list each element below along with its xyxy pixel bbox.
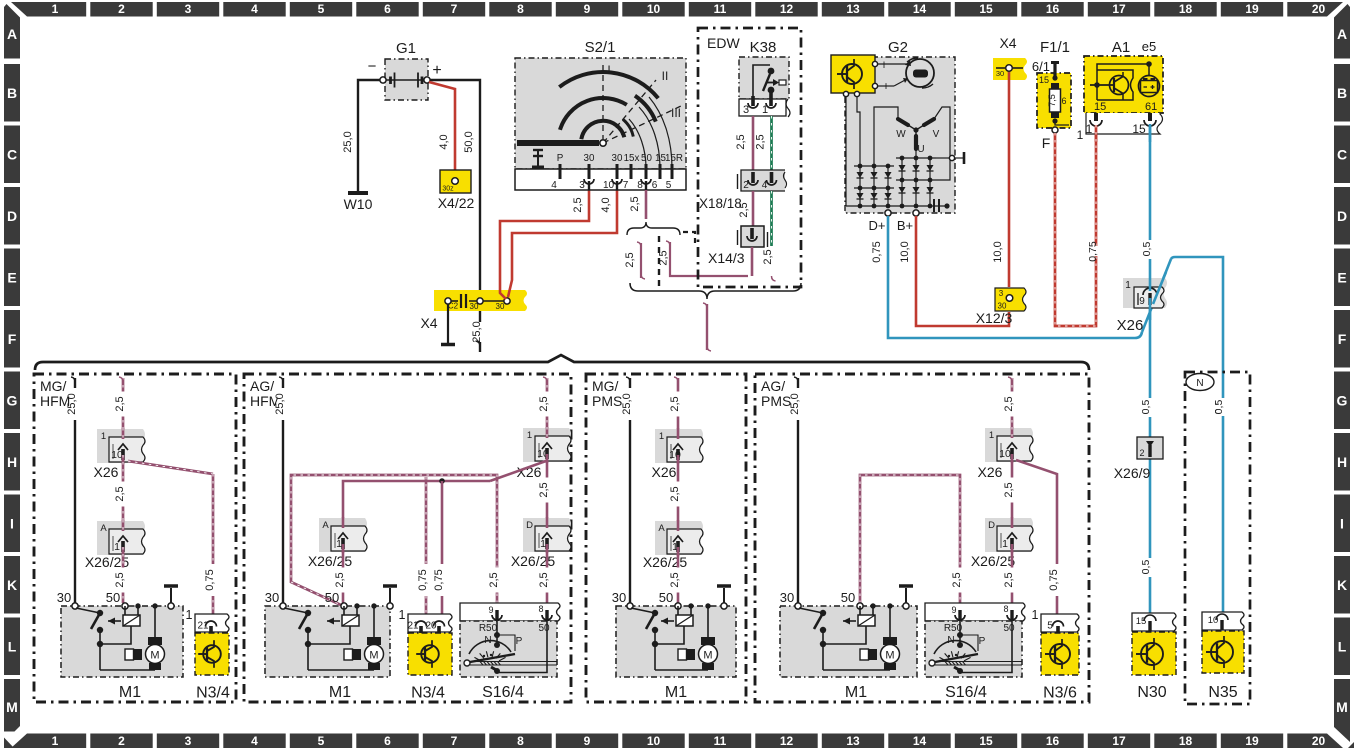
svg-text:8: 8 [517,734,524,748]
svg-text:0,75: 0,75 [204,569,216,590]
svg-text:14: 14 [913,734,927,748]
svg-text:1: 1 [114,541,120,553]
svg-text:1: 1 [52,734,59,748]
svg-text:25,0: 25,0 [789,393,801,414]
svg-text:N30: N30 [1137,684,1166,701]
svg-text:61: 61 [1145,101,1157,113]
svg-text:30: 30 [780,590,794,605]
svg-text:30: 30 [612,153,623,164]
svg-text:1: 1 [1125,280,1131,291]
svg-text:2,5: 2,5 [572,197,584,212]
svg-text:2,5: 2,5 [762,249,774,264]
svg-text:50: 50 [325,590,339,605]
svg-text:4: 4 [551,180,557,191]
svg-text:11: 11 [714,2,727,16]
svg-text:0,5: 0,5 [1140,400,1152,415]
svg-text:A: A [7,26,17,42]
svg-text:S16/4: S16/4 [482,684,524,701]
svg-text:7,5: 7,5 [1047,94,1057,107]
svg-text:N: N [1196,378,1203,389]
svg-text:17: 17 [1112,734,1126,748]
svg-text:E: E [7,270,16,286]
svg-text:4,0: 4,0 [438,134,450,149]
svg-text:15R: 15R [665,153,683,164]
svg-text:S16/4: S16/4 [945,684,987,701]
svg-text:2,5: 2,5 [1003,396,1015,411]
svg-text:M: M [703,650,712,662]
svg-text:D: D [7,208,17,224]
svg-text:D: D [1337,208,1347,224]
svg-text:N3/4: N3/4 [411,685,445,702]
svg-text:7: 7 [451,734,458,748]
svg-text:10: 10 [603,180,615,191]
svg-text:25,0: 25,0 [342,131,354,152]
svg-text:1: 1 [52,2,59,16]
svg-text:11: 11 [714,734,727,748]
svg-text:M: M [885,650,894,662]
svg-text:A: A [100,523,107,534]
svg-text:N35: N35 [1208,684,1237,701]
svg-text:6: 6 [384,2,391,16]
svg-text:X26/25: X26/25 [308,553,353,569]
svg-text:50: 50 [538,623,550,634]
svg-text:0,5: 0,5 [1213,400,1225,415]
svg-text:18: 18 [1179,2,1193,16]
svg-text:1: 1 [1002,538,1008,550]
svg-text:B: B [1337,85,1347,101]
svg-text:14: 14 [913,2,927,16]
svg-text:25,0: 25,0 [66,393,78,414]
svg-text:25,0: 25,0 [471,321,483,342]
svg-text:4: 4 [762,180,768,191]
svg-text:X4: X4 [999,35,1016,51]
svg-text:2,5: 2,5 [334,572,346,587]
svg-text:H: H [7,454,17,470]
svg-text:16: 16 [1046,734,1060,748]
svg-text:2: 2 [743,180,749,191]
svg-text:8: 8 [1003,604,1008,614]
svg-text:U: U [917,144,924,155]
svg-text:10: 10 [647,2,661,16]
svg-text:12: 12 [780,734,794,748]
svg-text:N3/6: N3/6 [1043,685,1077,702]
svg-text:e5: e5 [1142,39,1156,54]
svg-text:2,5: 2,5 [629,196,641,211]
svg-text:0,75: 0,75 [871,241,883,262]
svg-text:2,5: 2,5 [669,486,681,501]
svg-text:E: E [1337,270,1346,286]
svg-text:0,75: 0,75 [433,569,445,590]
svg-text:30: 30 [612,590,626,605]
svg-text:X18/18: X18/18 [699,196,742,211]
svg-text:50,0: 50,0 [463,131,475,152]
svg-text:2,5: 2,5 [1003,572,1015,587]
svg-text:50: 50 [841,590,855,605]
svg-text:B: B [7,85,17,101]
svg-text:1: 1 [527,430,532,441]
svg-text:15x: 15x [624,153,640,164]
svg-text:X14/3: X14/3 [708,250,745,266]
svg-text:M: M [6,699,18,715]
svg-text:H: H [1337,454,1347,470]
svg-text:7: 7 [451,2,458,16]
svg-text:M1: M1 [119,684,141,701]
svg-text:10,0: 10,0 [899,241,911,262]
svg-text:D: D [526,520,533,531]
svg-text:20: 20 [1312,734,1326,748]
svg-text:19: 19 [1245,2,1259,16]
svg-text:W: W [896,129,906,140]
svg-text:MG/: MG/ [40,378,67,394]
svg-text:X26: X26 [94,464,119,480]
svg-text:K38: K38 [750,39,777,56]
svg-text:AG/: AG/ [761,378,785,394]
svg-text:2,5: 2,5 [738,202,750,217]
svg-text:1: 1 [540,538,546,550]
svg-text:4: 4 [251,2,258,16]
svg-text:12: 12 [780,2,794,16]
svg-text:D: D [988,520,995,531]
svg-text:2,5: 2,5 [114,486,126,501]
svg-text:2,5: 2,5 [669,396,681,411]
svg-text:L: L [8,639,17,655]
svg-text:PMS: PMS [592,393,622,409]
svg-text:9: 9 [951,605,956,615]
svg-text:0,5: 0,5 [1141,242,1153,257]
svg-text:EDW: EDW [707,35,740,51]
svg-text:30: 30 [265,590,279,605]
svg-text:50: 50 [659,590,673,605]
svg-text:13: 13 [846,734,860,748]
svg-text:30: 30 [470,302,479,311]
svg-text:P: P [557,153,564,164]
svg-text:A: A [1337,26,1347,42]
svg-text:13: 13 [846,2,860,16]
svg-text:3: 3 [743,104,749,116]
svg-text:III: III [671,106,681,120]
svg-text:F: F [1338,331,1347,347]
svg-text:19: 19 [1245,734,1259,748]
svg-text:1: 1 [659,431,664,442]
svg-text:K: K [1337,577,1347,593]
svg-text:PMS: PMS [761,393,791,409]
svg-text:30: 30 [496,302,505,311]
svg-text:M1: M1 [329,684,351,701]
svg-text:M: M [369,650,378,662]
svg-text:2,5: 2,5 [735,134,747,149]
svg-text:5: 5 [666,180,672,191]
svg-text:C: C [7,147,17,163]
svg-text:W10: W10 [344,196,373,212]
svg-text:B+: B+ [897,218,913,233]
svg-text:2: 2 [118,734,125,748]
svg-text:6: 6 [1061,96,1066,106]
svg-text:G: G [1337,393,1348,409]
svg-text:M1: M1 [665,684,687,701]
svg-text:M1: M1 [845,684,867,701]
svg-text:50: 50 [641,153,652,164]
svg-text:2: 2 [118,2,125,16]
svg-text:N3/4: N3/4 [196,685,230,702]
svg-text:S2/1: S2/1 [585,39,616,56]
svg-text:L: L [1338,639,1347,655]
svg-text:G2: G2 [888,39,908,56]
svg-text:MG/: MG/ [592,378,619,394]
svg-text:15: 15 [1132,122,1146,136]
svg-text:−: − [368,58,377,75]
svg-text:X26/9: X26/9 [1114,465,1151,481]
svg-text:A: A [322,520,329,531]
svg-text:15: 15 [979,2,993,16]
svg-text:4: 4 [251,734,258,748]
svg-text:1: 1 [1086,122,1093,136]
svg-text:15: 15 [1094,101,1106,113]
svg-text:3: 3 [185,2,192,16]
svg-text:8: 8 [538,604,543,614]
svg-text:M: M [150,650,159,662]
svg-text:20: 20 [1312,2,1326,16]
svg-text:2,5: 2,5 [755,134,767,149]
svg-text:1: 1 [186,608,193,622]
svg-text:3: 3 [185,734,192,748]
svg-text:2,5: 2,5 [669,572,681,587]
svg-text:50: 50 [106,590,120,605]
svg-text:+: + [432,62,441,79]
svg-text:9: 9 [584,2,591,16]
svg-text:6: 6 [384,734,391,748]
svg-text:1: 1 [101,431,106,442]
svg-text:5: 5 [318,734,325,748]
svg-text:3: 3 [999,289,1004,298]
svg-text:A1: A1 [1112,39,1130,56]
svg-text:1: 1 [399,608,406,622]
svg-text:D+: D+ [869,218,886,233]
svg-text:2,5: 2,5 [538,572,550,587]
svg-text:I: I [607,63,610,77]
svg-text:2,5: 2,5 [114,396,126,411]
svg-text:F: F [1042,135,1051,151]
svg-text:G1: G1 [396,40,416,57]
svg-text:18: 18 [1179,734,1193,748]
svg-text:X4/22: X4/22 [438,195,475,211]
svg-text:30: 30 [996,69,1004,78]
svg-text:5: 5 [318,2,325,16]
svg-text:1: 1 [1032,608,1039,622]
svg-text:P: P [516,636,523,647]
svg-text:25,0: 25,0 [621,393,633,414]
svg-text:6/1: 6/1 [1032,59,1050,74]
svg-text:15: 15 [1039,75,1049,85]
svg-text:10: 10 [647,734,661,748]
svg-text:30: 30 [57,590,71,605]
svg-text:II: II [662,69,669,83]
svg-text:2: 2 [1139,448,1144,458]
svg-text:2,5: 2,5 [624,252,636,267]
svg-text:V: V [933,129,940,140]
svg-text:7: 7 [623,180,629,191]
svg-text:0,75: 0,75 [1048,569,1060,590]
svg-text:K: K [7,577,17,593]
svg-text:X26: X26 [978,464,1003,480]
svg-text:25,0: 25,0 [274,393,286,414]
svg-text:R50: R50 [479,623,498,634]
svg-text:2,5: 2,5 [658,250,670,265]
svg-text:1: 1 [762,104,768,116]
svg-text:17: 17 [1112,2,1126,16]
svg-text:C: C [1337,147,1347,163]
svg-text:2,5: 2,5 [488,572,500,587]
svg-text:9: 9 [584,734,591,748]
svg-text:8: 8 [637,180,643,191]
svg-text:I: I [883,60,886,70]
svg-text:2,5: 2,5 [1003,482,1015,497]
svg-text:X12/3: X12/3 [976,310,1013,326]
svg-text:X26: X26 [1117,317,1144,334]
svg-text:16: 16 [1046,2,1060,16]
svg-text:1: 1 [989,430,994,441]
svg-text:0,5: 0,5 [1140,560,1152,575]
svg-text:9: 9 [1139,296,1145,307]
svg-text:2,5: 2,5 [538,482,550,497]
svg-text:AG/: AG/ [250,378,274,394]
svg-text:0,75: 0,75 [417,569,429,590]
svg-text:I: I [10,516,14,532]
svg-text:9: 9 [488,605,493,615]
svg-text:A: A [658,523,665,534]
svg-text:P: P [979,636,986,647]
svg-text:0,75: 0,75 [1087,241,1099,262]
svg-text:I: I [1340,516,1344,532]
svg-text:C2: C2 [448,302,459,311]
svg-text:6: 6 [652,180,658,191]
svg-text:8: 8 [517,2,524,16]
svg-text:G: G [7,393,18,409]
svg-text:10: 10 [999,448,1011,460]
svg-text:2,5: 2,5 [114,572,126,587]
svg-text:X26/25: X26/25 [971,553,1016,569]
svg-text:X4: X4 [420,315,437,331]
svg-text:F: F [8,331,17,347]
svg-text:2,5: 2,5 [538,396,550,411]
svg-text:1: 1 [1077,128,1084,142]
svg-text:X26/25: X26/25 [511,553,556,569]
svg-text:F1/1: F1/1 [1040,39,1070,56]
svg-text:2,5: 2,5 [951,572,963,587]
svg-text:3: 3 [579,180,585,191]
svg-text:M: M [1336,699,1348,715]
svg-text:50: 50 [1003,623,1015,634]
svg-text:1: 1 [336,538,342,550]
svg-text:10,0: 10,0 [992,241,1004,262]
svg-text:X26: X26 [652,464,677,480]
svg-text:30z: 30z [442,186,454,193]
svg-text:30: 30 [584,153,595,164]
svg-text:15: 15 [979,734,993,748]
svg-text:4,0: 4,0 [600,197,612,212]
